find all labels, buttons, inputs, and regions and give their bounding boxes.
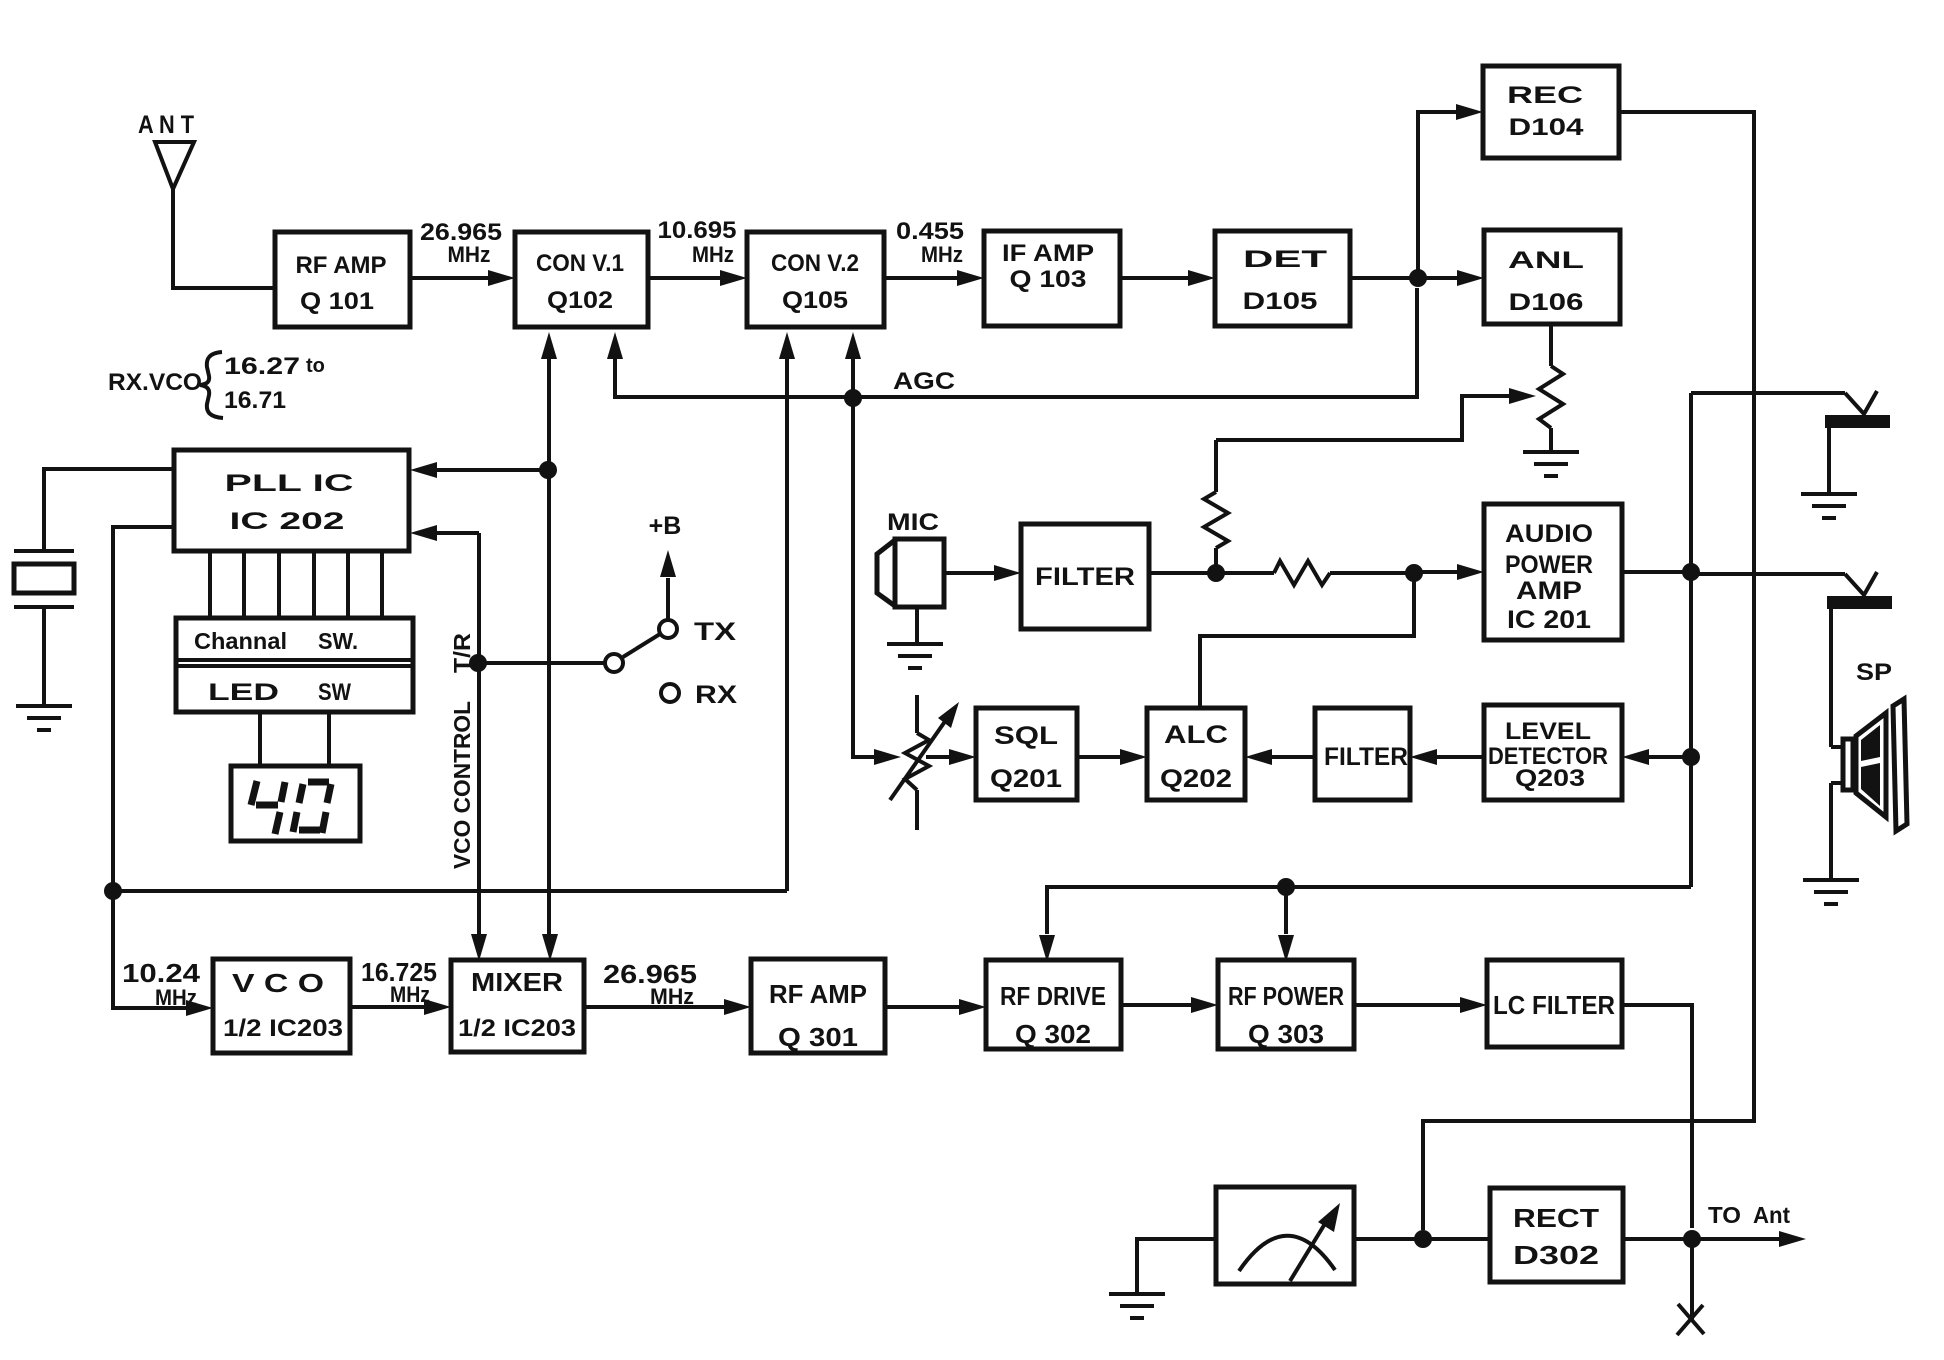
svg-text:Q102: Q102	[547, 287, 613, 314]
converter CON V.2 Q105	[747, 232, 884, 327]
wire node down to ALC	[1200, 573, 1414, 708]
svg-text:DET: DET	[1243, 246, 1328, 273]
pll PLL IC IC202	[174, 450, 409, 551]
wire resistor top to volume wiper arrow	[1216, 388, 1536, 440]
label 26.965 MHz	[420, 219, 502, 267]
wire FILTER2 to ALC	[1268, 755, 1315, 759]
wire long rail to CONV.2 bottom	[113, 889, 787, 893]
resistor (vertical) mic bias	[1204, 440, 1228, 573]
wire rail down to VCO input with 10.24 MHz	[113, 891, 213, 1016]
mixer MIXER 1/2 IC203	[451, 960, 584, 1052]
wire SQL to ALC	[1077, 755, 1124, 759]
svg-text:MHz: MHz	[448, 242, 491, 267]
node rail junction left	[104, 882, 122, 900]
svg-text:D104: D104	[1509, 114, 1585, 141]
svg-text:D105: D105	[1243, 288, 1318, 315]
wire audio bus feed to TX drivers	[1047, 887, 1691, 934]
detector LEVEL DETECTOR Q203	[1484, 705, 1622, 800]
svg-text:ANL: ANL	[1508, 247, 1584, 274]
svg-text:MHz: MHz	[692, 242, 734, 267]
svg-text:Q 302: Q 302	[1015, 1019, 1091, 1049]
svg-text:Q201: Q201	[990, 765, 1062, 793]
ground below meter wire	[1109, 1294, 1165, 1318]
svg-text:Q 301: Q 301	[778, 1022, 858, 1052]
display LED 7-segment 40	[231, 766, 360, 841]
svg-text:LC FILTER: LC FILTER	[1493, 990, 1615, 1020]
net AGC wire from CONV.1/CONV.2 bottoms to DET node	[607, 288, 1417, 891]
pll pins PLL to Channal SW (6 wires)	[210, 551, 382, 620]
driver RF DRIVE Q302	[986, 960, 1121, 1049]
svg-text:A N T: A N T	[138, 111, 194, 139]
svg-text:RECT: RECT	[1513, 1203, 1599, 1233]
svg-text:PLL IC: PLL IC	[225, 470, 354, 497]
wire vertical x549: CONV.1 bottom arrow down to MIXER top arrow	[541, 332, 558, 961]
label 10.695 MHz	[658, 217, 737, 267]
wire into PLL right edge from VCO CONTROL line (arrow)	[432, 531, 479, 535]
filter FILTER (alc)	[1315, 708, 1410, 800]
node junction at x549 y469	[539, 461, 557, 479]
svg-text:LEVEL: LEVEL	[1505, 718, 1591, 745]
antenna ANT	[138, 111, 194, 189]
wire LC FILTER to antenna node	[1622, 1005, 1692, 1228]
node T/R junction to switch	[469, 654, 487, 672]
svg-text:Ant: Ant	[1753, 1202, 1790, 1228]
svg-text:MHz: MHz	[155, 985, 197, 1010]
svg-text:MHz: MHz	[650, 984, 694, 1009]
node level detector junction	[1682, 748, 1700, 766]
filter FILTER (mic)	[1021, 524, 1149, 629]
svg-text:10.24: 10.24	[122, 958, 201, 988]
wire meter to ground (left)	[1137, 1239, 1218, 1294]
microphone MIC symbol	[877, 539, 944, 644]
node mic path junction	[1207, 564, 1225, 582]
svg-text:Q203: Q203	[1515, 765, 1585, 792]
noise limiter ANL D106	[1484, 230, 1620, 324]
potentiometer SQL squelch	[890, 695, 959, 830]
wire MIC to FILTER	[944, 571, 998, 575]
amplifier RF AMP Q301	[751, 959, 885, 1053]
amplifier RF AMP Q101	[275, 232, 410, 327]
svg-text:IC 202: IC 202	[230, 508, 345, 535]
svg-text:Q202: Q202	[1160, 765, 1232, 793]
svg-text:D302: D302	[1513, 1240, 1599, 1270]
svg-text:MIXER: MIXER	[471, 967, 563, 997]
wire DET to ANL	[1350, 276, 1461, 280]
wire VCO CONTROL T/R vertical line down to MIXER	[471, 533, 487, 961]
rectifier REC D104	[1483, 66, 1619, 158]
wire node up to REC	[1418, 112, 1460, 278]
amplifier IF AMP Q103	[984, 231, 1120, 326]
svg-text:AMP: AMP	[1516, 577, 1582, 605]
wire FILTER to node	[1149, 571, 1216, 575]
svg-text:RX.VCO: RX.VCO	[108, 369, 202, 396]
svg-text:16.71: 16.71	[224, 387, 286, 414]
svg-text:MHz: MHz	[921, 242, 963, 267]
svg-text:RF POWER: RF POWER	[1228, 981, 1344, 1011]
svg-text:16.27: 16.27	[224, 353, 300, 380]
svg-text:IC 201: IC 201	[1507, 606, 1591, 634]
wire RF DRIVE to RF POWER	[1121, 1003, 1195, 1007]
svg-text:FILTER: FILTER	[1035, 563, 1135, 591]
label TO Ant	[1708, 1202, 1790, 1228]
label 10.24 MHz	[122, 958, 201, 1010]
wire AGC node down to squelch pot	[853, 398, 878, 757]
wire RF AMP to CONV.1	[410, 276, 492, 280]
svg-text:FILTER: FILTER	[1324, 743, 1408, 771]
wire CONV.2 to IF AMP	[884, 276, 961, 280]
svg-text:RF AMP: RF AMP	[769, 979, 867, 1009]
wire pot to SQL box	[926, 755, 953, 759]
jack earphone J1	[1825, 391, 1890, 494]
wire MIXER to RF AMP Q301	[584, 1005, 728, 1009]
wire junction to switch common	[479, 661, 604, 665]
svg-text:LED: LED	[208, 679, 279, 706]
crystal X201	[14, 469, 174, 706]
squelch SQL Q201	[976, 708, 1077, 800]
amplifier AUDIO POWER AMP IC201	[1484, 504, 1622, 640]
svg-text:SP: SP	[1856, 659, 1892, 686]
svg-text:TO: TO	[1708, 1202, 1741, 1228]
label 16.725 MHz	[361, 957, 437, 1007]
meter M (power/SWR)	[1216, 1187, 1354, 1284]
switch TX/RX relay	[605, 550, 679, 702]
node TX feed junction	[1277, 878, 1295, 896]
wire bus to speaker jack (lower)	[1691, 572, 1845, 576]
svg-text:RF DRIVE: RF DRIVE	[1000, 981, 1106, 1011]
svg-text:CON V.2: CON V.2	[771, 250, 859, 277]
svg-text:SW: SW	[318, 679, 351, 706]
svg-text:+B: +B	[649, 512, 682, 540]
svg-text:MHz: MHz	[390, 982, 430, 1007]
svg-text:VCO CONTROL: VCO CONTROL	[449, 701, 475, 869]
switch Channal SW.	[176, 618, 413, 712]
node audio amp input junction	[1405, 564, 1423, 582]
svg-text:CON V.1: CON V.1	[536, 250, 624, 277]
wire REC output bus down right side to RECT junction	[1423, 112, 1754, 1230]
svg-text:IF AMP: IF AMP	[1002, 240, 1094, 267]
svg-text:1/2 IC203: 1/2 IC203	[458, 1015, 576, 1042]
ground below jack J1	[1801, 494, 1857, 518]
node AGC junction at x=853	[844, 389, 862, 407]
svg-text:AUDIO: AUDIO	[1505, 520, 1593, 548]
svg-text:SQL: SQL	[994, 722, 1058, 750]
node audio output junction	[1682, 563, 1700, 581]
ground below speaker	[1803, 880, 1859, 904]
svg-text:TX: TX	[694, 618, 736, 646]
ground below crystal	[16, 706, 72, 730]
wire node down to antenna break X	[1690, 1239, 1694, 1322]
speaker SP symbol	[1831, 699, 1907, 880]
svg-text:MIC: MIC	[887, 509, 939, 536]
oscillator VCO 1/2 IC203	[213, 959, 350, 1053]
node meter/RECT junction	[1414, 1230, 1432, 1248]
wire arrow TO Ant	[1692, 1237, 1780, 1241]
filter LC FILTER	[1487, 960, 1622, 1047]
wire PLL left pin down to long feedback rail	[113, 527, 174, 891]
svg-text:Channal: Channal	[194, 628, 287, 654]
svg-text:AGC: AGC	[893, 368, 955, 395]
svg-text:to: to	[306, 355, 325, 377]
svg-text:1/2 IC203: 1/2 IC203	[223, 1015, 343, 1042]
ground below ANL resistor	[1523, 452, 1579, 476]
jack speaker J2	[1827, 572, 1892, 747]
wire audio output bus (vertical right)	[1622, 393, 1691, 887]
svg-text:V C O: V C O	[232, 968, 324, 998]
wire antenna to RF AMP	[173, 189, 275, 288]
wire RF AMP to RF DRIVE	[885, 1005, 963, 1009]
label 0.455 MHz	[896, 218, 964, 267]
svg-text:10.695: 10.695	[658, 217, 737, 244]
converter CON V.1 Q102	[515, 232, 648, 327]
label RX.VCO with brace and 16.27 to 16.71	[108, 352, 325, 418]
wire LEVEL DETECTOR to FILTER2	[1433, 755, 1484, 759]
label 26.965 MHz (tx)	[603, 959, 697, 1009]
svg-text:D106: D106	[1509, 289, 1584, 316]
svg-text:Q 101: Q 101	[300, 288, 374, 315]
detector DET D105	[1215, 231, 1350, 326]
limiter ALC Q202	[1147, 708, 1245, 800]
wires LED SW to display (2 leads)	[260, 713, 329, 766]
node DET/ANL junction	[1409, 269, 1427, 287]
wire RF POWER to LC FILTER	[1354, 1003, 1464, 1007]
svg-text:RF AMP: RF AMP	[296, 252, 387, 279]
node TO Ant junction	[1683, 1230, 1701, 1248]
svg-text:SW.: SW.	[318, 628, 358, 654]
ground below MIC	[887, 644, 943, 668]
wire VCO to MIXER	[350, 1005, 428, 1009]
wire into PLL right edge from CONV.1 line (arrow)	[432, 468, 549, 472]
amplifier RF POWER Q303	[1218, 960, 1354, 1049]
svg-text:REC: REC	[1507, 82, 1583, 109]
wire meter to RECT	[1354, 1237, 1490, 1241]
resistor (horizontal) audio series	[1216, 561, 1414, 585]
svg-text:Q105: Q105	[782, 287, 848, 314]
wire audio bus to LEVEL DETECTOR	[1645, 755, 1691, 759]
wire IF AMP to DET	[1120, 276, 1192, 280]
symbol X antenna break	[1677, 1304, 1704, 1335]
switch LED SW	[208, 679, 351, 706]
svg-text:POWER: POWER	[1505, 551, 1593, 579]
wire CONV.1 to CONV.2	[648, 276, 724, 280]
svg-text:0.455: 0.455	[896, 218, 964, 245]
wire node down to RF POWER	[1278, 887, 1294, 962]
svg-text:Q 103: Q 103	[1010, 266, 1087, 293]
wire node to AUDIO POWER AMP	[1414, 570, 1461, 574]
svg-text:ALC: ALC	[1164, 721, 1228, 749]
svg-text:RX: RX	[695, 681, 737, 709]
svg-text:Q 303: Q 303	[1248, 1019, 1324, 1049]
rectifier RECT D302	[1490, 1188, 1623, 1282]
resistor volume control below ANL	[1539, 324, 1563, 452]
wire bus to earphone jack (top)	[1691, 391, 1845, 395]
wire RECT to TO Ant node	[1623, 1237, 1692, 1241]
